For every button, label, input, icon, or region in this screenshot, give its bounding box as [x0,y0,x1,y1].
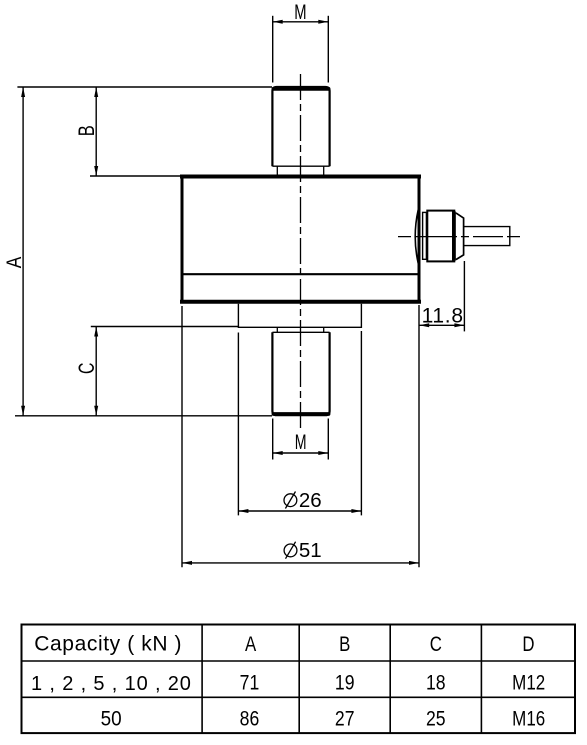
dim M top extension lines [272,16,274,83]
cable gland thick ring [452,212,456,261]
dim d26 label diameter symbol [284,494,297,507]
cable gland body [427,211,454,262]
svg-text:19: 19 [335,671,355,695]
dim B line [95,87,97,176]
svg-text:Capacity ( kN ): Capacity ( kN ) [34,633,182,656]
table grid [22,625,576,734]
svg-text:B: B [74,125,99,136]
svg-text:50: 50 [101,707,122,730]
svg-text:86: 86 [240,707,260,731]
bottom stud neck [276,327,278,332]
cable gland washer [423,212,427,259]
dim A extension top [17,86,272,88]
dim C line [95,327,97,416]
svg-text:25: 25 [426,707,446,731]
svg-text:27: 27 [335,707,355,731]
dim d51 label diameter symbol [284,544,297,557]
svg-text:M12: M12 [512,671,545,695]
svg-text:1 , 2 , 5 , 10 , 20: 1 , 2 , 5 , 10 , 20 [31,673,192,695]
svg-text:M16: M16 [512,707,545,731]
top stud [272,87,329,166]
body [182,177,419,302]
svg-text:51: 51 [299,539,322,562]
cable [464,227,510,246]
svg-text:18: 18 [426,671,446,695]
svg-text:D: D [522,633,534,656]
top stud neck [276,166,278,175]
dim M bottom line [273,452,329,454]
bottom stud [272,332,329,415]
dim M top line [273,21,329,23]
dim M bottom extension lines [272,419,274,460]
svg-text:B: B [339,633,350,656]
dim d51 extension lines [181,306,183,567]
svg-text:11.8: 11.8 [422,304,464,327]
dim A/C extension bottom [15,415,272,417]
svg-text:C: C [74,363,99,374]
dim d51 line [182,562,419,564]
svg-text:M: M [295,430,307,454]
dim d26 extension lines [237,333,239,516]
dim d26 line [238,510,361,512]
dim A line [22,87,24,416]
svg-text:A: A [2,256,26,268]
centerline vertical [300,74,302,429]
body inner line [182,273,419,275]
dim 11.8 line [419,324,464,326]
centerline horizontal [398,236,521,238]
dim 11.8 extension right [463,261,465,331]
svg-text:C: C [430,633,442,656]
svg-text:26: 26 [299,489,322,512]
dim C extension top (flange bottom, left) [91,326,238,328]
cable gland arc [415,210,418,263]
dim B extension (body top, left) [90,175,181,177]
cable gland cone [456,213,464,260]
svg-text:A: A [245,633,256,656]
svg-text:71: 71 [240,671,260,695]
flange [238,304,361,328]
svg-text:M: M [294,0,306,24]
